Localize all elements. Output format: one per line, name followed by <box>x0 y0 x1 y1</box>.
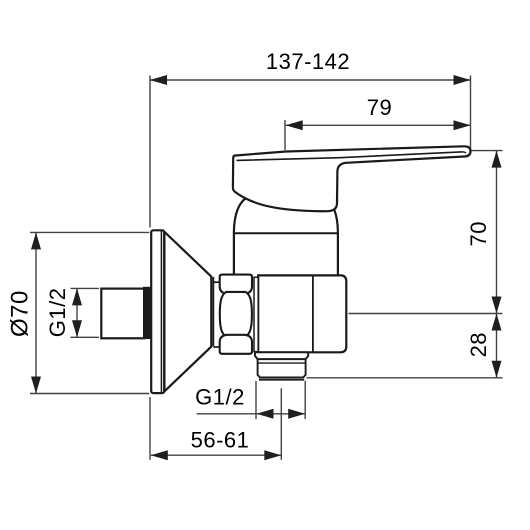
body dome and cartridge cylinder <box>234 189 338 276</box>
neck top line <box>213 281 220 283</box>
outlet thread shoulder line <box>258 362 306 364</box>
flange rim inner line <box>160 231 162 393</box>
block seam line <box>312 276 314 352</box>
outlet collar <box>255 352 308 359</box>
arrowhead 56-61 left <box>151 450 168 460</box>
svg-text:56-61: 56-61 <box>191 427 250 452</box>
union nut top facet <box>220 275 252 294</box>
wire: extension line wall bottom (x=150) <box>149 397 151 460</box>
arrowhead G1/2 left top <box>72 288 82 305</box>
svg-text:79: 79 <box>367 95 392 120</box>
arrowhead 70 bottom <box>492 297 502 314</box>
svg-text:G1/2: G1/2 <box>45 288 70 338</box>
svg-text:70: 70 <box>466 221 491 246</box>
wire: extension line outlet thread right (x=305.2) <box>304 381 306 419</box>
wire: extension line nipple top (y=288.4) <box>71 287 100 289</box>
neck bottom line <box>213 346 220 348</box>
wire: extension line 79-left (x=285) <box>284 120 286 150</box>
flange cone <box>164 232 211 392</box>
arrowhead 28 bottom <box>492 361 502 378</box>
arrowhead 137-142 left <box>150 75 167 85</box>
wire: extension line inlet axis right (y=313.5) <box>349 313 503 315</box>
wire: extension line outlet thread left (x=256) <box>255 381 257 419</box>
arrowhead G1/2 left bottom <box>72 320 82 337</box>
wire: dimension line diam70 vertical (x=36) <box>35 232 37 393</box>
arrowhead diam70 top <box>31 232 41 249</box>
arrowhead 137-142 right <box>454 75 471 85</box>
arrowhead 70 top <box>492 151 502 168</box>
wire: dimension line 79 <box>286 124 471 126</box>
arrowhead 79 right <box>454 120 471 130</box>
outlet thread body <box>258 359 306 377</box>
valve body block <box>258 275 346 352</box>
arrowhead G1/2 outlet left <box>257 409 274 419</box>
wire: outlet centerline (x=281.3) <box>280 388 282 460</box>
arrowhead diam70 bottom <box>31 377 41 394</box>
wall nipple G1/2 <box>101 289 144 339</box>
handle top face inner line <box>237 152 466 161</box>
svg-text:G1/2: G1/2 <box>195 385 245 410</box>
cone end face line <box>212 277 214 346</box>
escutcheon flange rim <box>151 230 164 393</box>
wire: extension line handle top right (y=150.6) <box>472 150 503 152</box>
arrowhead 28 top <box>492 314 502 331</box>
union nut middle facet <box>220 292 252 337</box>
union nut bottom facet <box>220 335 252 354</box>
nipple dark band at wall <box>143 287 150 339</box>
arrowhead 56-61 right <box>264 450 281 460</box>
wire: dimension line 70/28 vertical (x=496.5) <box>496 151 498 378</box>
wire: dimension line G1/2 left vertical (x=77) <box>76 288 78 337</box>
wire: extension line handle tip (x=470.5) <box>470 76 472 151</box>
wire: extension line outlet bottom right (y=377.8) <box>307 377 503 379</box>
arrowhead 79 left <box>286 120 303 130</box>
wire: extension line wall top (x=150) <box>149 76 151 228</box>
wire: extension line flange top (y=232.4) <box>30 231 149 233</box>
svg-text:Ø70: Ø70 <box>7 290 34 337</box>
body seam line <box>234 232 338 234</box>
wire: dimension line 56-61 (y=455.2) <box>151 454 281 456</box>
wire: dimension line 137-142 <box>150 79 471 81</box>
svg-text:137-142: 137-142 <box>266 49 350 74</box>
lever handle <box>233 146 471 211</box>
arrowhead G1/2 outlet right <box>288 409 305 419</box>
svg-text:28: 28 <box>466 332 491 357</box>
wire: dimension line G1/2 bottom (y=413.8) <box>197 413 306 415</box>
outlet bottom edge line <box>259 379 304 381</box>
wire: extension line flange bottom (y=393.5) <box>30 393 149 395</box>
washer between nut and block <box>254 277 258 351</box>
wire: extension line nipple bottom (y=337.3) <box>71 336 100 338</box>
